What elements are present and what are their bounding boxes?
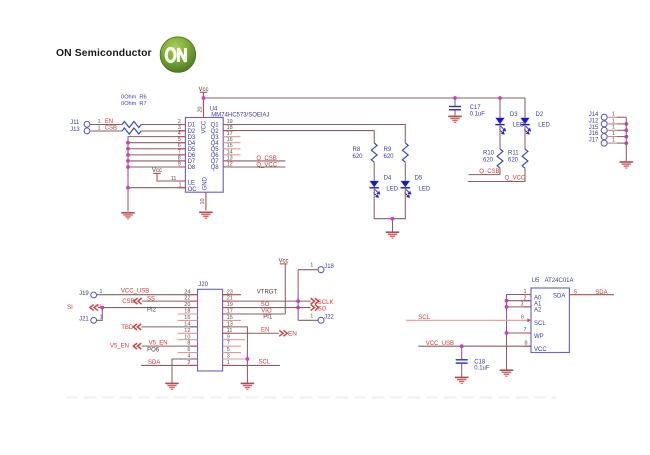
- junction: [126, 159, 130, 163]
- left ground bus for D3-D8: [128, 137, 185, 212]
- svg-text:Q_VCC: Q_VCC: [256, 162, 277, 168]
- svg-text:8: 8: [525, 340, 528, 346]
- ground J20 pin13 bus: [241, 383, 255, 389]
- svg-text:ON Semiconductor: ON Semiconductor: [56, 48, 152, 59]
- svg-text:SO: SO: [318, 306, 327, 312]
- stub pin7: [223, 345, 241, 347]
- wire bus to D5: [128, 148, 185, 150]
- wire A2: [507, 306, 532, 308]
- junction: [126, 147, 130, 151]
- junction: [624, 122, 628, 126]
- stub pin9: [223, 339, 245, 341]
- svg-text:R10: R10: [483, 150, 495, 156]
- junction: [453, 96, 457, 100]
- svg-text:0Ohm R6: 0Ohm R6: [121, 95, 147, 101]
- stub pin3 to ground bus: [223, 358, 248, 360]
- svg-text:J12: J12: [589, 119, 599, 125]
- svg-text:V5_EN: V5_EN: [110, 343, 129, 349]
- net SCL wire to pin6: [406, 319, 531, 321]
- svg-text:J13: J13: [70, 127, 80, 133]
- wire D3 to R10: [499, 125, 501, 149]
- junction: [505, 299, 509, 303]
- svg-text:620: 620: [353, 154, 364, 160]
- svg-text:GND: GND: [203, 176, 209, 190]
- svg-text:C17: C17: [470, 105, 482, 111]
- junction: [202, 96, 206, 100]
- net SO chevron: [311, 305, 319, 311]
- wire pin13 to ground bus: [223, 327, 248, 383]
- connector J19: [91, 292, 97, 298]
- junction: [498, 96, 502, 100]
- svg-text:VCC_USB: VCC_USB: [121, 289, 149, 295]
- vertical J18-J22 bus: [297, 270, 299, 321]
- net SO wire pin19: [223, 307, 311, 309]
- connector J16: [601, 134, 607, 140]
- svg-text:LE: LE: [188, 180, 195, 186]
- svg-text:J16: J16: [589, 131, 599, 137]
- ground left bus: [121, 213, 135, 219]
- connector J21: [91, 317, 97, 323]
- svg-text:TBD: TBD: [121, 325, 134, 331]
- wire Q8 Q_VCC: [223, 166, 285, 168]
- wire J11 to R6: [90, 124, 122, 126]
- svg-text:SCL: SCL: [259, 359, 271, 365]
- LED D4: [370, 181, 380, 197]
- svg-text:VCC_USB: VCC_USB: [426, 341, 454, 347]
- wire J15 to bus: [607, 129, 617, 131]
- header ground bus: [625, 117, 627, 161]
- IC U4 MM74HC573 box: [185, 118, 223, 193]
- pin 10 GND stem: [205, 192, 207, 210]
- svg-text:J17: J17: [589, 138, 599, 144]
- svg-text:20: 20: [198, 106, 204, 112]
- faint footer artifact line: [66, 396, 556, 398]
- svg-text:SS: SS: [147, 296, 155, 302]
- junction: [624, 128, 628, 132]
- net SCLK wire pin21: [223, 300, 311, 302]
- junction: [624, 141, 628, 145]
- pin stubs (red) J20: [191, 294, 198, 296]
- svg-text:J15: J15: [589, 125, 599, 131]
- wire A1: [507, 300, 532, 302]
- connector J11: [84, 121, 90, 127]
- pin stubs (red) U4 right connected: [223, 124, 230, 126]
- ground header: [620, 162, 634, 168]
- svg-text:Q_CSB: Q_CSB: [256, 156, 276, 162]
- ground C18: [455, 377, 469, 383]
- wire Q7 Q_CSB: [223, 160, 285, 162]
- svg-text:PI2: PI2: [147, 307, 157, 313]
- ground U5 bus: [500, 370, 514, 376]
- svg-text:LED: LED: [513, 122, 525, 128]
- svg-text:0.1uF: 0.1uF: [470, 111, 486, 117]
- wire J22 to bus: [298, 319, 318, 321]
- svg-text:J20: J20: [198, 282, 208, 288]
- resistor R7: [122, 128, 141, 134]
- svg-text:SCL: SCL: [534, 321, 546, 327]
- svg-text:R11: R11: [508, 150, 519, 156]
- LED D2: [524, 98, 526, 118]
- connector J12: [601, 121, 607, 127]
- junction: [296, 299, 300, 303]
- net SDA wire pin2: [141, 364, 198, 366]
- svg-text:J14: J14: [589, 112, 599, 118]
- net SCLK chevron: [311, 298, 319, 304]
- svg-text:AT24C01A: AT24C01A: [545, 278, 574, 284]
- wire Q2 to R8: [223, 131, 374, 143]
- wire Vcc vertical to U4 pin 20: [203, 98, 205, 118]
- svg-text:J19: J19: [79, 291, 89, 297]
- ground J20 pin4: [165, 383, 179, 389]
- junction: [624, 135, 628, 139]
- wire WP: [507, 332, 532, 334]
- net VCC_USB wire J19 to pin24: [97, 294, 198, 296]
- resistor R8: [371, 143, 377, 162]
- U5 ground bus: [507, 295, 532, 370]
- junction: [505, 305, 509, 309]
- stub pin15: [223, 319, 241, 321]
- junction: [100, 306, 104, 310]
- svg-text:3: 3: [521, 302, 524, 308]
- svg-text:1: 1: [310, 263, 313, 269]
- svg-text:Q_VCC: Q_VCC: [505, 176, 526, 182]
- svg-text:620: 620: [508, 157, 519, 163]
- svg-text:A0: A0: [534, 295, 542, 301]
- wire bus to OC pin1: [128, 187, 185, 189]
- svg-text:1: 1: [310, 313, 313, 319]
- wire D4/D5 to ground: [374, 188, 405, 219]
- wire bus to D6: [128, 154, 185, 156]
- svg-text:SCL: SCL: [418, 315, 430, 321]
- junction: [505, 331, 509, 335]
- connector J22: [318, 317, 324, 323]
- connector J17: [601, 140, 607, 146]
- svg-text:7: 7: [524, 327, 527, 333]
- stub pin6: [178, 352, 198, 354]
- connector J20 box: [198, 289, 223, 371]
- ground U4 pin10: [199, 212, 213, 218]
- svg-text:J11: J11: [70, 120, 80, 126]
- wire bus to D4: [128, 142, 185, 144]
- wire Vcc to LE pin11: [159, 180, 185, 182]
- wire R7 to U4 pin3: [141, 130, 185, 132]
- wire R11 to Q_VCC: [468, 168, 525, 181]
- svg-text:0Ohm R7: 0Ohm R7: [121, 101, 147, 107]
- svg-text:D3: D3: [510, 112, 518, 118]
- junction: [126, 141, 130, 145]
- connector J18: [318, 267, 324, 273]
- svg-text:J21: J21: [79, 317, 89, 323]
- svg-text:J22: J22: [324, 315, 334, 321]
- stub pin12: [178, 332, 198, 334]
- connector J15: [601, 127, 607, 133]
- wire J18 to bus: [298, 269, 318, 271]
- svg-text:LED: LED: [419, 186, 431, 192]
- IC U5 AT24C01A box: [531, 288, 569, 353]
- svg-text:PO6: PO6: [147, 348, 160, 354]
- wire bus to D8: [128, 166, 185, 168]
- svg-text:620: 620: [483, 157, 494, 163]
- svg-text:D2: D2: [536, 112, 544, 118]
- svg-text:D4: D4: [384, 175, 392, 181]
- LED D5: [401, 181, 411, 197]
- stub pin23: [223, 294, 241, 296]
- wire J17 to bus: [607, 142, 617, 144]
- svg-text:EN: EN: [288, 330, 297, 337]
- svg-text:VCC: VCC: [534, 347, 547, 353]
- wire J12 to bus: [607, 123, 617, 125]
- wire J16 to bus: [607, 136, 617, 138]
- resistor R11: [524, 125, 526, 149]
- svg-text:VTRGT: VTRGT: [257, 289, 278, 295]
- ground C17: [448, 116, 462, 122]
- pin stubs Q3-Q6: [223, 136, 240, 138]
- net SCL wire pin1: [223, 364, 280, 366]
- svg-text:0.1uF: 0.1uF: [474, 366, 490, 372]
- ON logo sphere: [160, 37, 196, 73]
- svg-text:Q8: Q8: [211, 165, 220, 171]
- svg-text:A2: A2: [534, 308, 542, 314]
- svg-text:MM74HC573/SOEIAJ: MM74HC573/SOEIAJ: [211, 112, 269, 118]
- svg-text:SDA: SDA: [148, 360, 160, 366]
- wire R10 to Q_CSB: [469, 168, 501, 174]
- svg-text:SO: SO: [261, 302, 270, 308]
- junction: [246, 357, 250, 361]
- pin stubs (red) U5: [524, 294, 531, 296]
- resistor R10: [497, 149, 503, 168]
- ground D4/D5: [386, 232, 400, 238]
- svg-text:SI: SI: [67, 305, 73, 311]
- wire J13 to R7: [90, 130, 122, 132]
- svg-text:V5_EN: V5_EN: [149, 341, 168, 347]
- svg-text:PI1: PI1: [263, 315, 273, 321]
- stub pin10: [178, 339, 198, 341]
- svg-text:SCLK: SCLK: [318, 300, 334, 306]
- net EN wire pin11: [223, 332, 279, 334]
- svg-text:D8: D8: [188, 165, 196, 171]
- svg-text:SDA: SDA: [553, 294, 565, 300]
- junction: [126, 165, 130, 169]
- svg-text:WP: WP: [534, 334, 544, 340]
- svg-text:11: 11: [171, 176, 177, 182]
- junction: [126, 186, 130, 190]
- resistor R6: [122, 122, 141, 128]
- svg-text:OC: OC: [188, 187, 198, 193]
- svg-text:U5: U5: [532, 278, 540, 284]
- wire pin4 to ground: [172, 359, 198, 383]
- net VCC_USB wire to pin8: [418, 345, 531, 347]
- svg-text:1: 1: [100, 289, 103, 295]
- stub pin18: [178, 313, 198, 315]
- wire top Vcc rail: [204, 97, 526, 99]
- wire J14 to bus: [607, 116, 617, 118]
- svg-text:SDA: SDA: [595, 290, 607, 296]
- wire R9 to D5: [404, 162, 406, 181]
- svg-text:620: 620: [384, 154, 395, 160]
- net SDA wire pin5: [569, 294, 590, 296]
- U4 pin names: [188, 120, 220, 193]
- wire J21 up to SI net: [97, 308, 103, 321]
- wire R8 to D4: [373, 162, 375, 181]
- svg-text:LED: LED: [538, 122, 550, 128]
- svg-text:R9: R9: [384, 147, 392, 153]
- wire Vcc to pin17 VIO: [223, 313, 286, 315]
- wire bus to D7: [128, 160, 185, 162]
- junction: [391, 217, 395, 221]
- junction: [460, 344, 464, 348]
- svg-text:Q_CSB: Q_CSB: [479, 169, 499, 175]
- svg-text:6: 6: [521, 314, 524, 320]
- junction: [296, 306, 300, 310]
- svg-text:5: 5: [574, 289, 577, 295]
- svg-text:R8: R8: [353, 147, 361, 153]
- pin stubs (red) U4 left: [178, 124, 185, 126]
- svg-text:EN: EN: [261, 328, 269, 334]
- svg-text:D5: D5: [415, 175, 423, 181]
- stub pin5: [223, 352, 241, 354]
- wire R6 to U4 pin2: [141, 124, 185, 126]
- svg-text:CSB: CSB: [122, 299, 134, 305]
- stub pin16: [178, 319, 198, 321]
- svg-text:10: 10: [200, 198, 206, 204]
- svg-text:LED: LED: [386, 186, 398, 192]
- svg-text:J18: J18: [324, 264, 334, 270]
- junction: [126, 153, 130, 157]
- resistor R9: [402, 143, 408, 162]
- svg-text:A1: A1: [534, 302, 542, 308]
- wire Q1 to R9: [223, 125, 405, 144]
- connector J14: [601, 114, 607, 120]
- connector J13: [84, 128, 90, 134]
- svg-text:VCC: VCC: [202, 120, 208, 133]
